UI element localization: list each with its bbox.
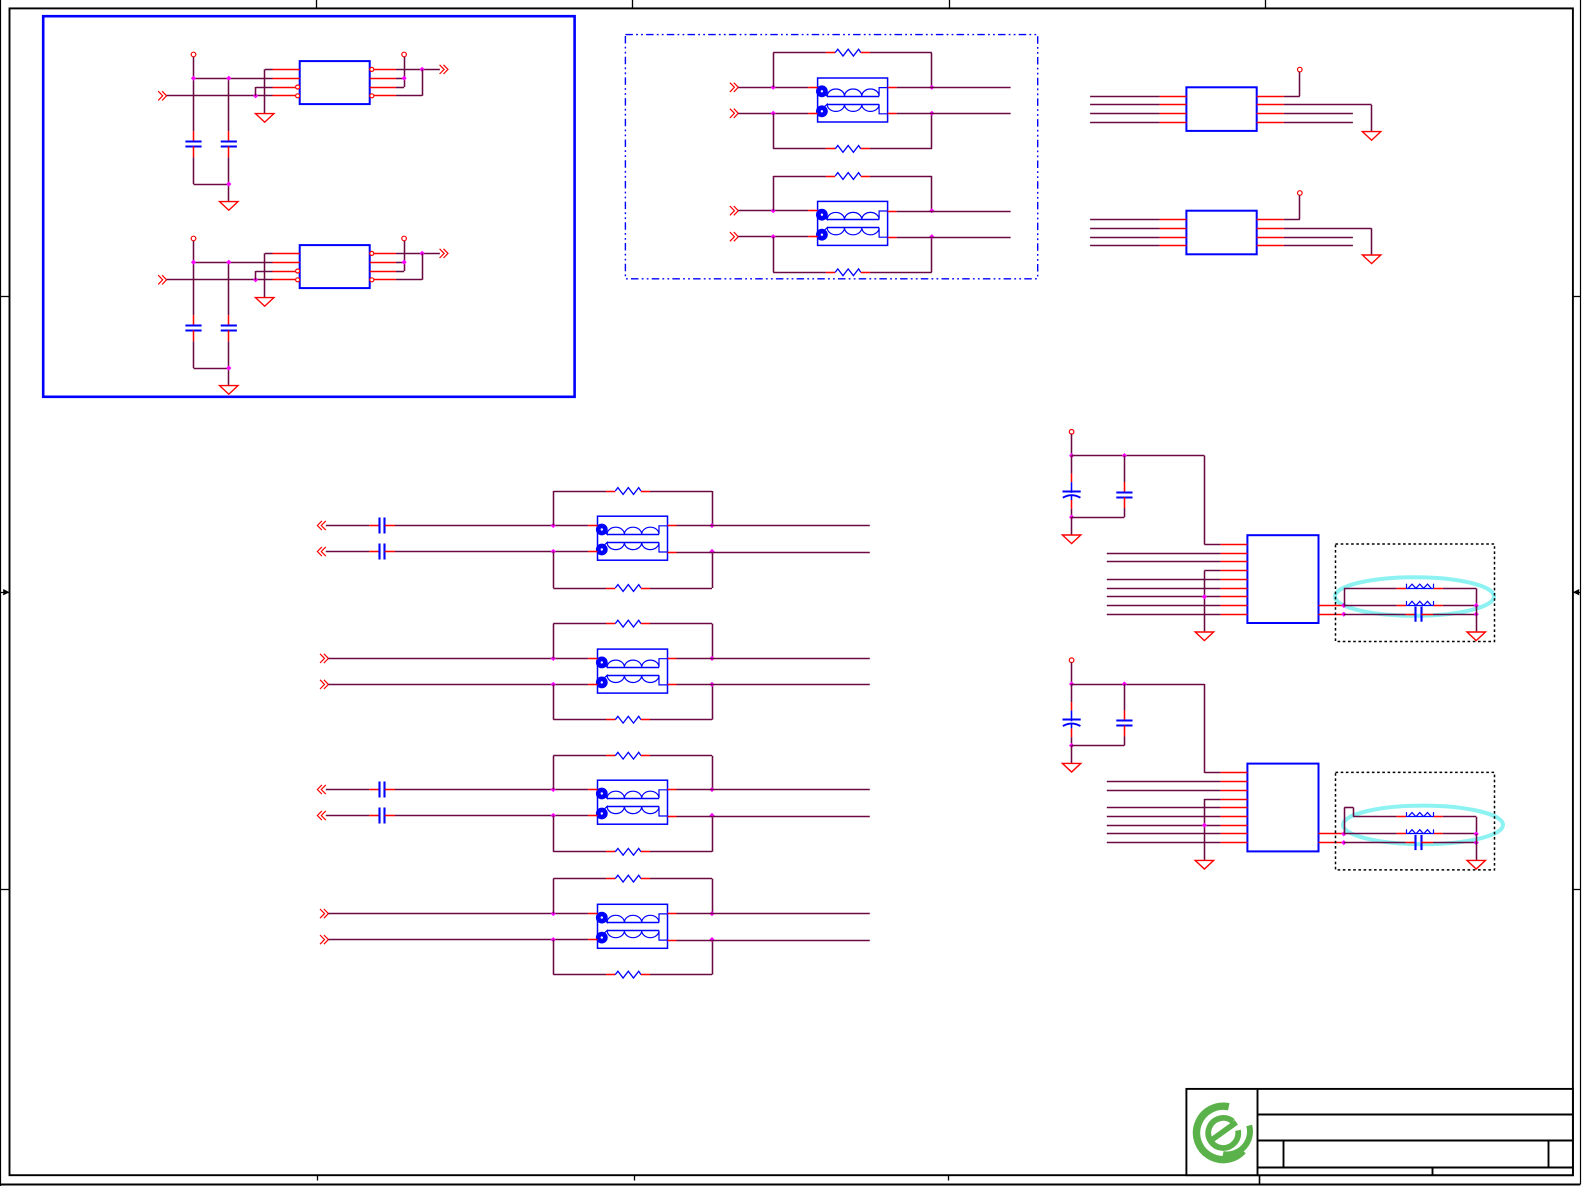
sheet outer edge bottom [0, 1184, 1580, 1186]
U6 left pin 1 [1221, 772, 1248, 774]
wire M3 bottom rail b [650, 851, 712, 853]
wire T2 bottom rail a [773, 272, 826, 274]
wire U5 signal 5 [1107, 579, 1221, 581]
wire M3 top rail a [553, 755, 606, 757]
title block cell divider a [1283, 1140, 1285, 1167]
wire pin5 up 2 [396, 253, 423, 279]
wire M2 outA [677, 658, 870, 660]
highlight ellipse B1 [1335, 577, 1494, 616]
ground U3 [1362, 132, 1380, 141]
resistor M2 bottom [606, 716, 650, 723]
power node VCC1a [191, 52, 196, 57]
title block cell divider b [1548, 1140, 1550, 1167]
border centre arrow right [1573, 589, 1580, 595]
wire U6 signal 5 [1107, 807, 1221, 809]
wire U5 signal 3 [1107, 561, 1221, 563]
junction [402, 76, 407, 81]
wire M1 outA [677, 525, 870, 527]
wire power rail 1 [194, 57, 273, 131]
wire B2 capA bottom lead [1071, 737, 1073, 745]
wire input net 1 [167, 95, 273, 97]
wire M3 outA [677, 789, 870, 791]
junction [929, 234, 934, 239]
wire U5 signal 6 [1107, 588, 1221, 590]
wire U3 out A [1284, 113, 1353, 115]
wire M3 inA1 [326, 789, 369, 791]
wire output net 1 [396, 69, 440, 71]
U2 pin 2 [273, 262, 300, 264]
capacitor B2 bulk (polarized) [1063, 711, 1081, 738]
port T2 in A [730, 206, 738, 215]
wire pin3 link 1 [256, 87, 273, 96]
resistor T2 top [826, 173, 870, 180]
capacitor B1 bulk (polarized) [1063, 482, 1081, 509]
title block logo cell divider [1257, 1089, 1259, 1175]
U5 right pin TX- [1319, 614, 1344, 616]
wire M2 bottom rail a [553, 719, 606, 721]
ferrite bead L2 [1397, 601, 1443, 606]
wire B1 capA top lead [1071, 456, 1073, 474]
ferrite bead L3 [1397, 812, 1443, 817]
wire T2 right rail [931, 176, 933, 272]
U5 left pin 7 [1221, 596, 1248, 598]
wire B2 cap ground lead [1071, 746, 1073, 764]
wire U6 signal 6 [1107, 816, 1221, 818]
junction [771, 208, 776, 213]
U1 pin 8 [374, 69, 396, 71]
wire B1 vcc to pin [1204, 456, 1220, 545]
wire B1 capB leads [1124, 456, 1126, 517]
U1 pin 5 [374, 95, 396, 97]
wire B2 vcc to pin [1204, 684, 1220, 773]
dash-dot group box [625, 35, 1037, 279]
junction [191, 76, 196, 81]
power node B1 [1069, 430, 1074, 435]
port M2 in B [320, 680, 328, 689]
U5 right pin TX+ [1319, 605, 1344, 607]
port output 2 [440, 249, 448, 258]
wire B1 bottom branch left [1344, 614, 1406, 616]
transformer M3 [588, 780, 676, 824]
wire B1 pin4 ground [1204, 571, 1220, 632]
junction [1341, 603, 1346, 608]
wire B2 capB leads [1124, 684, 1126, 746]
resistor M2 top [606, 620, 650, 627]
wire M4 inA [328, 913, 588, 915]
wire M3 left rail [553, 756, 555, 852]
wire B2 bottom branch left [1344, 842, 1406, 844]
sheet outer edge right [1580, 0, 1582, 1185]
wire M4 left rail [553, 879, 555, 975]
power node B2 [1069, 658, 1074, 663]
wire U3 input 4 [1090, 122, 1160, 124]
U5 left pin 6 [1221, 588, 1248, 590]
wire T2 outB [897, 237, 1011, 239]
resistor M1 bottom [606, 585, 650, 592]
junction [551, 937, 556, 942]
wire pin1 to ground 2 [265, 253, 273, 297]
wire M3 top rail b [650, 755, 712, 757]
wire B2 vcc drop [1071, 663, 1073, 685]
capacitor C4 [221, 315, 237, 341]
wire M1 inA2 [395, 525, 588, 527]
wire B1 upper branch right [1443, 588, 1477, 605]
port M4 in A [320, 909, 328, 918]
junction [191, 260, 196, 265]
wire M2 top rail b [650, 623, 712, 625]
junction [420, 251, 425, 256]
U1 pin 4 [273, 95, 296, 97]
wire M2 top rail a [553, 623, 606, 625]
wire M3 inB2 [395, 815, 588, 817]
U4 right pin 6 [1257, 237, 1284, 239]
resistor T1 bottom [826, 146, 870, 153]
junction [1069, 515, 1074, 520]
junction [253, 277, 258, 282]
junction [420, 67, 425, 72]
transformer M4 [588, 904, 676, 948]
junction [402, 260, 407, 265]
junction [1069, 681, 1074, 686]
wire U6 signal 3 [1107, 790, 1221, 792]
U6 left pin 2 [1221, 781, 1248, 783]
U1 pin 5 bubble [370, 94, 374, 98]
wire T1 left rail [773, 53, 775, 149]
series capacitor B1 [1406, 607, 1433, 622]
U4 right pin 8 [1257, 219, 1284, 221]
wire M1 outB [677, 552, 870, 554]
company logo [1196, 1106, 1250, 1159]
IC U1 [300, 61, 370, 104]
wire M1 inB1 [326, 551, 369, 553]
border zone tick top 1 [316, 0, 318, 8]
wire T1 outA [897, 87, 1011, 89]
ground B2 digital [1195, 860, 1213, 869]
U5 left pin 8 [1221, 605, 1248, 607]
wire M4 bottom rail a [553, 974, 606, 976]
wire pin7 pin6 join 2 [396, 262, 405, 271]
junction [771, 111, 776, 116]
wire B2 cap bottoms [1072, 745, 1125, 747]
port output 1 [440, 65, 448, 74]
junction [551, 787, 556, 792]
border zone tick top 3 [949, 0, 951, 8]
wire U3 input 3 [1090, 113, 1160, 115]
wire U4 out B [1284, 245, 1353, 247]
junction [226, 76, 231, 81]
wire M2 outB [677, 684, 870, 686]
wire B1 cap ground lead [1071, 517, 1073, 535]
U6 left pin 9 [1221, 842, 1248, 844]
U3 right pin 7 [1257, 104, 1284, 106]
junction [929, 208, 934, 213]
wire U4 input 2 [1090, 228, 1160, 230]
wire pin5 up 1 [396, 69, 423, 95]
wire T2 top rail a [773, 176, 826, 178]
junction [1474, 603, 1479, 608]
wire M3 outB [677, 816, 870, 818]
capacitor M1B [369, 544, 395, 560]
ground U4 [1362, 255, 1380, 264]
title block row line 1 [1257, 1114, 1573, 1116]
wire T1 bottom rail b [870, 148, 932, 150]
wire M1 bottom rail b [650, 588, 712, 590]
ground G2a [256, 298, 274, 307]
wire B2 capA top lead [1071, 684, 1073, 702]
wire M3 right rail [712, 756, 714, 852]
wire M3 bottom rail a [553, 851, 606, 853]
IC U2 [300, 245, 370, 288]
capacitor B1 bulk lead [1071, 474, 1073, 483]
capacitor C2 [221, 131, 237, 157]
junction [226, 181, 231, 186]
wire M1 inB2 [395, 551, 588, 553]
wire M1 left rail [553, 491, 555, 588]
wire T1 top rail a [773, 52, 826, 54]
junction [929, 111, 934, 116]
junction [1341, 840, 1346, 845]
wire B2 mid branch left [1344, 833, 1397, 835]
U2 pin 6 [370, 271, 396, 273]
junction [226, 260, 231, 265]
wire cap bottoms 1 [194, 157, 229, 201]
series capacitor B2 [1406, 835, 1433, 850]
wire pin7 pin6 join 1 [396, 78, 405, 87]
wire M1 inA1 [326, 525, 369, 527]
U4 left pin 3 [1160, 237, 1187, 239]
wire M3 inB1 [326, 815, 369, 817]
IC U3 [1186, 87, 1256, 131]
junction [929, 85, 934, 90]
wire B1 bottom branch right [1433, 614, 1476, 616]
U2 pin 8 [374, 253, 396, 255]
border zone tick bottom 1 [317, 1175, 319, 1180]
wire M2 bottom rail b [650, 719, 712, 721]
junction [551, 549, 556, 554]
U1 pin 8 bubble [370, 67, 374, 71]
wire U4 input 4 [1090, 245, 1160, 247]
U4 right pin 7 [1257, 228, 1284, 230]
U4 left pin 1 [1160, 219, 1187, 221]
U6 right pin TX- [1319, 842, 1344, 844]
wire T1 bottom rail a [773, 148, 826, 150]
U3 left pin 3 [1160, 113, 1187, 115]
border zone tick bottom 2 [634, 1175, 636, 1180]
wire input net 2 [167, 279, 273, 281]
border zone tick right upper [1573, 296, 1580, 298]
ferrite bead L1 [1397, 584, 1443, 589]
wire M2 inA [328, 658, 588, 660]
wire power 2b [404, 241, 406, 262]
wire M4 inB [328, 939, 588, 941]
wire M2 left rail [553, 624, 555, 720]
U3 right pin 5 [1257, 122, 1284, 124]
port T1 in B [730, 109, 738, 118]
wire pin1 to ground 1 [265, 69, 273, 113]
U6 right pin TX+ [1319, 833, 1344, 835]
port M4 in B [320, 935, 328, 944]
junction [709, 549, 714, 554]
wire M4 right rail [712, 879, 714, 975]
junction [709, 813, 714, 818]
port T1 in A [730, 83, 738, 92]
port M3 out A [317, 785, 325, 794]
ground G2b [220, 386, 238, 395]
capacitor B2 decoupling [1116, 710, 1132, 736]
title block under-strip divider [1259, 1175, 1261, 1185]
U1 pin 2 [273, 78, 300, 80]
transformer M1 [588, 516, 676, 560]
wire U5 signal 9 [1107, 614, 1221, 616]
wire B2 filter ground lead [1476, 834, 1478, 860]
wire T2 left rail [773, 176, 775, 272]
port M1 out B [317, 547, 325, 556]
wire U3 gnd [1284, 105, 1372, 132]
U1 pin 6 [370, 87, 396, 89]
resistor M3 top [606, 752, 650, 759]
port T2 in B [730, 232, 738, 241]
wire U4 input 3 [1090, 237, 1160, 239]
resistor T1 top [826, 49, 870, 56]
U3 left pin 4 [1160, 122, 1187, 124]
U2 pin 5 bubble [370, 278, 374, 282]
capacitor M1A [369, 518, 395, 534]
U3 left pin 2 [1160, 104, 1187, 106]
wire M3 inA2 [395, 789, 588, 791]
wire output net 2 [396, 253, 440, 255]
U3 left pin 1 [1160, 96, 1187, 98]
ground G1a [256, 114, 274, 123]
wire U6 signal 9 [1107, 842, 1221, 844]
sheet outer edge left [0, 0, 2, 1186]
border zone tick left lower [1, 889, 10, 891]
port input 2 [158, 275, 166, 284]
wire T1 inA [738, 87, 808, 89]
wire B2 upper branch left [1344, 808, 1397, 834]
junction [1122, 453, 1127, 458]
ground B1 filter [1467, 632, 1485, 641]
junction [1474, 612, 1479, 617]
ground B1 digital [1195, 632, 1213, 641]
border centre arrow left [1, 589, 10, 595]
wire M2 inB [328, 684, 588, 686]
wire T1 outB [897, 113, 1011, 115]
wire power rail 2 [194, 241, 273, 315]
U5 left pin 1 [1221, 544, 1248, 546]
wire B2 bottom branch right [1433, 842, 1476, 844]
junction [551, 523, 556, 528]
title block frame [1186, 1089, 1573, 1175]
junction [1474, 840, 1479, 845]
U2 pin 3 [273, 271, 296, 273]
U6 left pin 5 [1221, 807, 1248, 809]
wire B1 filter ground lead [1476, 606, 1478, 632]
junction [1341, 831, 1346, 836]
wire T2 top rail b [870, 176, 932, 178]
junction [253, 93, 258, 98]
junction [1202, 823, 1207, 828]
U4 left pin 2 [1160, 228, 1187, 230]
U2 pin 8 bubble [370, 251, 374, 255]
resistor M1 top [606, 488, 650, 495]
junction [1122, 681, 1127, 686]
ferrite bead L4 [1397, 829, 1443, 834]
wire B1 mid branch left [1344, 605, 1397, 607]
wire B1 vcc rail [1072, 455, 1205, 457]
junction [771, 234, 776, 239]
wire U3 input 2 [1090, 104, 1160, 106]
wire T2 inB [738, 236, 808, 238]
ground B2 caps [1062, 763, 1080, 772]
junction [1474, 831, 1479, 836]
junction [551, 682, 556, 687]
wire pin3 link 2 [256, 271, 273, 280]
junction [551, 911, 556, 916]
wire B2 upper branch right [1443, 817, 1477, 834]
wire U5 signal 7 [1107, 596, 1221, 598]
junction [551, 813, 556, 818]
port M3 out B [317, 811, 325, 820]
wire B2 mid branch right [1443, 833, 1477, 835]
U5 left pin 3 [1221, 561, 1248, 563]
transformer T1 [808, 78, 896, 122]
capacitor C3 [185, 315, 201, 341]
border zone tick top 4 [1265, 0, 1267, 8]
U1 pin 3 bubble [296, 85, 300, 89]
wire T2 outA [897, 211, 1011, 213]
wire M1 top rail b [650, 491, 712, 493]
wire U5 signal 8 [1107, 605, 1221, 607]
wire U6 signal 7 [1107, 825, 1221, 827]
junction [1341, 612, 1346, 617]
wire M1 bottom rail a [553, 588, 606, 590]
wire B1 mid branch right [1443, 605, 1477, 607]
capacitor M3B [369, 808, 395, 824]
U6 left pin 4 [1221, 799, 1248, 801]
transformer M2 [588, 649, 676, 693]
wire B2 vcc rail [1072, 684, 1205, 686]
transformer T2 [808, 201, 896, 245]
U3 right pin 6 [1257, 113, 1284, 115]
port M2 in A [320, 654, 328, 663]
port input 1 [158, 91, 166, 100]
junction [1069, 453, 1074, 458]
U2 pin 3 bubble [296, 269, 300, 273]
wire M4 outB [677, 940, 870, 942]
U6 left pin 7 [1221, 825, 1248, 827]
wire M1 top rail a [553, 491, 606, 493]
wire U4 out A [1284, 237, 1353, 239]
wire cap bottoms 2 [194, 341, 229, 385]
capacitor C1 [185, 131, 201, 157]
wire U3 vcc [1284, 72, 1300, 97]
wire M1 right rail [712, 491, 714, 588]
resistor M3 bottom [606, 848, 650, 855]
title block row line 2 [1257, 1140, 1573, 1142]
U6 left pin 3 [1221, 790, 1248, 792]
U3 right pin 8 [1257, 96, 1284, 98]
port M1 out A [317, 521, 325, 530]
wire M4 outA [677, 913, 870, 915]
U5 left pin 2 [1221, 553, 1248, 555]
junction [709, 787, 714, 792]
wire T1 inB [738, 113, 808, 115]
wire U3 input 1 [1090, 96, 1160, 98]
U6 left pin 6 [1221, 816, 1248, 818]
U4 right pin 5 [1257, 245, 1284, 247]
wire U6 signal 2 [1107, 781, 1221, 783]
junction [709, 656, 714, 661]
